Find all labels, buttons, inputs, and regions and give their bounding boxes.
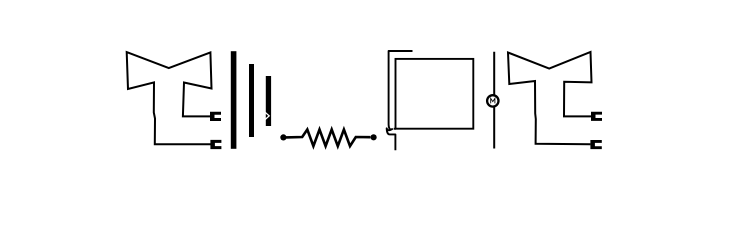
motor M1 (circle) [487,95,498,106]
wire with corner bracket and curl (left of box) [387,51,413,150]
component symbol U2 (right T-shaped outline with stem wires) [508,52,592,144]
motor M1 letter [491,98,495,103]
white chevron notch on bar 3 [265,112,270,120]
node dot A (left end of resistor) [280,134,286,140]
resistor R1 (zigzag) [286,130,370,147]
terminal connector J2 (lower left) [210,140,221,149]
wire (vertical branch through motor) [493,52,495,149]
component symbol U1 (left T-shaped outline with stem wires) [127,52,212,144]
terminal connector J3 (upper right) [591,112,602,121]
bottom edge extension of box (left of rect corner) [394,128,396,130]
box component (rectangle body) [396,59,474,129]
terminal connector J1 (upper left) [210,112,221,121]
battery cell bar 2 (medium) [249,64,254,137]
battery cell bar 1 (tall) [231,51,237,149]
battery cell bar 3 (short) [266,76,271,126]
node dot B (right end of resistor) [371,134,377,140]
terminal connector J4 (lower right) [590,140,601,149]
